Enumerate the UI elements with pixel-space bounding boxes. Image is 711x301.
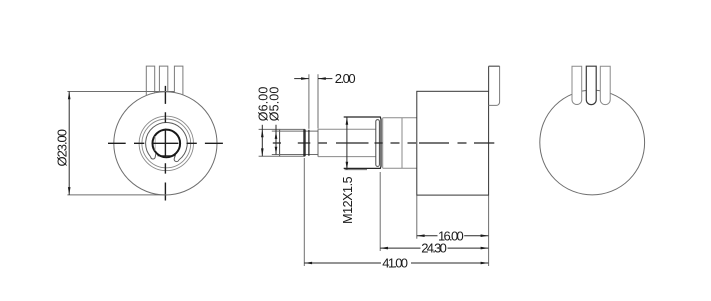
shaft front section inner Ø5 lines <box>280 131 318 154</box>
dimension line <box>261 125 263 156</box>
shaft Ø6 section lines <box>318 129 376 156</box>
svg-text:Ø23.00: Ø23.00 <box>55 129 70 167</box>
svg-text:24.30: 24.30 <box>421 241 447 256</box>
rear tab with rounded corner <box>489 66 500 105</box>
e-clip inner bottom chord <box>158 155 176 157</box>
dimension 41.00 line <box>304 262 488 264</box>
mounting tab 1 (left view) <box>146 66 154 95</box>
extension line body rear x=488.6 <box>488 196 490 267</box>
terminal pin 3 <box>600 66 610 104</box>
step to Ø6 edge <box>317 129 319 156</box>
flat end double edge <box>303 129 305 156</box>
extension line top <box>67 91 174 93</box>
rear view body circle <box>540 90 645 195</box>
rear boss cylinder <box>383 118 417 168</box>
dimension 16.00 line <box>417 235 489 237</box>
e-clip left prong <box>151 153 156 159</box>
shaft circle Ø6 (dark ring) <box>153 130 181 158</box>
centerline side view <box>273 142 495 144</box>
shaft front section outer Ø6 lines <box>280 129 305 156</box>
front view body circle Ø23 <box>114 92 217 195</box>
extension line bushing rear x=380.2 <box>379 172 381 251</box>
bushing boss inner circle <box>142 119 191 168</box>
terminal pin 2 <box>586 66 596 104</box>
vertical centerline front view <box>164 86 166 201</box>
svg-text:41.00: 41.00 <box>382 256 408 271</box>
shaft groove edge <box>308 130 310 156</box>
threaded bushing M12 outline <box>344 117 381 168</box>
rear tab left edge <box>489 66 500 91</box>
terminal pin 1 <box>572 66 582 104</box>
extension line bottom <box>272 154 280 156</box>
dimension line right with arrow <box>318 78 332 80</box>
shaft front face <box>279 129 281 156</box>
mounting tab 2 (left view) <box>159 66 167 92</box>
main body rectangle <box>417 91 489 195</box>
dimension 24.30 line <box>380 247 488 249</box>
extension line top <box>259 128 281 130</box>
arrow up <box>68 92 71 100</box>
arrow down <box>68 187 71 195</box>
lock washer <box>376 120 380 167</box>
extension line shaft end x=304.3 <box>303 158 305 266</box>
extension line top <box>272 130 280 132</box>
extension line left <box>308 74 310 129</box>
extension line bottom <box>345 169 368 171</box>
bushing boss outer circle <box>139 116 193 170</box>
dimension line Ø23.00 <box>68 92 70 195</box>
extension line right <box>317 74 319 128</box>
svg-text:M12X1.5: M12X1.5 <box>341 176 355 224</box>
svg-text:2.00: 2.00 <box>335 71 356 86</box>
extension line bottom <box>67 194 166 196</box>
dimension line left with arrow <box>294 78 309 80</box>
dimension line <box>346 117 348 170</box>
svg-text:Ø5.00: Ø5.00 <box>268 87 282 122</box>
e-clip right prong <box>174 155 179 162</box>
mounting tab 3 (left view) <box>174 66 183 95</box>
horizontal centerline front view <box>108 142 223 144</box>
dimension line <box>275 125 277 155</box>
e-clip outer arc with bottom gap <box>146 122 188 160</box>
shaft flat chord (front view) <box>154 136 156 150</box>
extension line body front x=416.8 <box>416 196 418 239</box>
extension line bottom <box>259 155 281 157</box>
